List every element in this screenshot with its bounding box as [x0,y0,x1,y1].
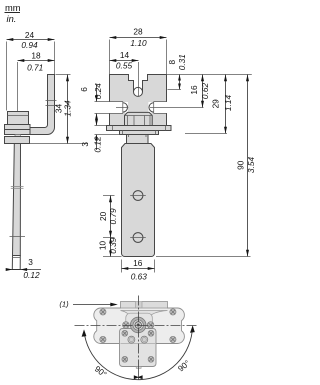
square screw top-left [122,330,128,336]
svg-text:1.34: 1.34 [63,100,73,117]
arc arrowhead right [190,325,195,332]
left view neck [15,135,21,137]
dimension 34 / 1.34 [56,74,71,76]
square screw top-right [148,330,154,336]
horizontal centerline [75,325,197,327]
hex nut [125,112,153,125]
bar hole upper [133,191,143,201]
svg-text:3: 3 [28,257,33,267]
dimension 3 / 0.12 washer [96,120,98,126]
svg-text:18: 18 [31,51,41,61]
svg-text:16: 16 [133,258,143,268]
left view plate [5,125,31,130]
svg-text:1.10: 1.10 [130,38,147,48]
arc arrowhead left [82,329,87,336]
svg-text:3: 3 [80,142,90,147]
svg-text:3.54: 3.54 [246,157,256,174]
plate screw bottom-left [100,336,106,342]
arc bottom bowtie [134,375,139,379]
square ring holes [128,336,135,343]
top reference line [167,74,252,76]
left view washer [5,137,30,144]
dimension 8 / 0.31 [179,75,181,90]
svg-text:20: 20 [98,211,108,221]
dimension 20 / 0.79 [103,195,115,197]
inner boss [126,313,153,334]
90 degree arc [84,327,193,380]
svg-text:28: 28 [133,27,143,37]
bar [122,144,155,257]
plate screw top-right [170,309,176,315]
svg-text:6: 6 [79,87,89,92]
side screw right of shaft [147,322,154,329]
svg-text:29: 29 [210,99,220,109]
side screw left of shaft [123,322,130,329]
svg-text:0.79: 0.79 [108,208,118,225]
cylinder [127,135,149,144]
square screw bottom-right [148,356,154,362]
svg-text:0.71: 0.71 [27,63,43,73]
plate top edge behind bar [121,307,167,309]
plate bottom edge through square [121,343,156,345]
svg-text:0.12: 0.12 [23,270,40,280]
central shaft [130,317,146,333]
svg-text:1.14: 1.14 [223,95,233,112]
plate screw bottom-right [170,336,176,342]
left view centerline [17,62,19,150]
svg-text:0.55: 0.55 [116,61,133,71]
svg-text:10: 10 [98,241,108,251]
svg-text:0.31: 0.31 [177,54,187,70]
svg-text:0.12: 0.12 [93,136,103,153]
rod break marks [11,186,24,188]
dimension 10 / 0.39 [103,256,122,258]
svg-text:(1): (1) [59,299,69,308]
svg-text:0.24: 0.24 [93,83,103,100]
dimension 6 / 0.24 [96,85,98,102]
flange [120,131,159,135]
svg-text:90: 90 [235,160,245,170]
left side slot [95,102,128,113]
bottom square [120,329,157,367]
left view rod [13,144,21,256]
baseline extension line [30,143,88,145]
right side slot [148,102,167,113]
center view centerline [138,62,140,96]
svg-text:0.39: 0.39 [108,237,118,254]
left view L-arm [22,75,55,135]
svg-text:16: 16 [189,85,199,95]
svg-text:14: 14 [120,50,130,60]
svg-text:24: 24 [25,30,35,40]
svg-text:0.62: 0.62 [200,83,210,100]
rod tip [12,256,20,270]
svg-text:0.63: 0.63 [131,272,148,282]
dimension 16 / 0.63 [121,260,123,273]
svg-text:in.: in. [7,14,17,24]
svg-text:0.94: 0.94 [21,40,38,50]
washer [107,126,172,131]
center view block with notch [110,75,167,126]
square bottom tab [136,367,141,369]
bottom view top bar [121,302,168,311]
notch bottom hole top arc [134,87,143,92]
dimension 29 / 1.14 [225,75,227,134]
arm break ticks [46,100,57,102]
svg-text:8: 8 [167,60,177,65]
bar hole lower [133,233,143,243]
dimension 16 / 0.62 [202,75,204,108]
dimension 90 / 3.54 [247,75,249,257]
bottom view plate [94,308,185,344]
left view top nut [8,112,29,125]
bar-to-plate flare [121,311,168,319]
square screw bottom-left [122,356,128,362]
plate screw top-left [100,309,106,315]
svg-text:mm: mm [5,3,21,13]
dimension 3 / 0.12 rod tip [9,269,42,271]
vertical centerline [138,296,140,367]
